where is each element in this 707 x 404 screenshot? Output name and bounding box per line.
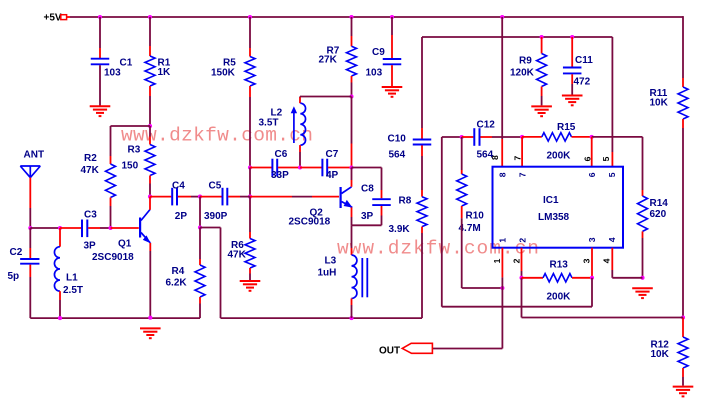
pin 1 number inside (498, 238, 508, 243)
svg-text:5: 5 (607, 172, 617, 177)
svg-text:R4: R4 (172, 266, 185, 277)
svg-text:2.5T: 2.5T (63, 285, 83, 296)
label R1 (158, 57, 171, 68)
label R2 (84, 153, 97, 164)
svg-text:ANT: ANT (24, 149, 45, 160)
label Q2 2SC9018 (289, 217, 331, 228)
label OUT (379, 345, 400, 356)
wire R7 bottom lead (351, 76, 353, 97)
wire C3 to R2 node (88, 227, 110, 229)
label C1 (120, 57, 133, 68)
label R10 (466, 211, 485, 222)
wire C10 to R8 (421, 145, 423, 196)
svg-text:OUT: OUT (379, 345, 400, 356)
node pin1 junction (500, 286, 504, 290)
wire R10 bottom lead (462, 206, 503, 288)
svg-text:1K: 1K (158, 67, 172, 78)
svg-text:R14: R14 (650, 198, 669, 209)
svg-text:C11: C11 (575, 55, 593, 66)
label C2 (10, 247, 23, 258)
value 47K (81, 165, 100, 176)
wire pin1 lead (501, 248, 503, 288)
wire L1 bottom lead (59, 291, 61, 318)
svg-text:C1: C1 (120, 57, 133, 68)
capacitor C11 (563, 68, 582, 74)
resistor R10 (457, 174, 467, 206)
inductor L2 (300, 103, 305, 145)
svg-text:5: 5 (601, 156, 611, 161)
wire C1 top lead (99, 17, 101, 58)
svg-text:R9: R9 (519, 56, 532, 67)
wire C12 left lead (462, 136, 474, 138)
pin 4 number outside (602, 258, 612, 263)
resistor R6 (245, 239, 255, 269)
wire pin1 to OUT (432, 288, 502, 349)
node R4 top junction (198, 225, 202, 229)
pin 1 number outside (492, 258, 502, 263)
wire R1-R2 link (111, 126, 151, 164)
node C6 left junction (248, 165, 252, 169)
value 103 (104, 67, 121, 78)
wire R3 top lead (149, 126, 151, 145)
value 103 (366, 68, 383, 79)
wire R4 top lead (199, 228, 201, 266)
capacitor C6 (272, 159, 277, 177)
wire R4 bottom lead (199, 297, 201, 318)
wire Q2 emitter to L3 (351, 225, 353, 255)
capacitor C4 (172, 188, 177, 206)
svg-text:C2: C2 (10, 247, 23, 258)
wire R12 bottom lead (682, 368, 684, 386)
svg-text:3.5T: 3.5T (259, 118, 279, 129)
wire C12 right lead (480, 136, 522, 138)
svg-text:C5: C5 (209, 180, 222, 191)
wire pin8 supply drop (501, 17, 503, 167)
svg-text:564: 564 (389, 150, 406, 161)
pin 3 number outside (582, 258, 592, 263)
wire C8 top link (352, 168, 382, 199)
node R6 top junction (248, 195, 252, 199)
wire R10 top lead (461, 137, 463, 174)
svg-text:6: 6 (587, 172, 597, 177)
value 27K (319, 55, 338, 66)
svg-text:6: 6 (583, 156, 593, 161)
wire pin2 to R11R12 node (522, 278, 684, 318)
svg-text:150: 150 (122, 161, 139, 172)
label C9 (372, 47, 385, 58)
node L1 top junction (58, 226, 62, 230)
label R5 (223, 57, 236, 68)
pin 7 number inside (518, 172, 528, 177)
pin 5 number inside (607, 172, 617, 177)
label L3 (325, 256, 337, 267)
wire pin3 to C12 node (442, 137, 592, 307)
pin 3 number inside (587, 237, 597, 242)
wire R14 bottom lead (642, 231, 644, 277)
wire rail2 (221, 317, 423, 319)
svg-text:103: 103 (366, 68, 383, 79)
svg-text:620: 620 (650, 209, 667, 220)
wire C9 bottom lead (391, 65, 393, 86)
wire R11 top lead (682, 16, 684, 87)
value 120K (510, 68, 535, 79)
capacitor C10 (413, 140, 432, 145)
value 10K (651, 349, 670, 360)
svg-text:R10: R10 (466, 211, 485, 222)
transistor Q2 (340, 187, 353, 208)
svg-text:27K: 27K (319, 55, 338, 66)
wire Q2 emitter lead (351, 207, 353, 225)
value 564 (389, 150, 406, 161)
node C4 C5 junction (198, 195, 202, 199)
label C5 (209, 180, 222, 191)
value 3P (84, 240, 97, 251)
wire L2 top link (300, 97, 352, 104)
wire R7 top lead (351, 17, 353, 46)
watermark www.dzkfw.com.cn lower (337, 238, 539, 260)
wire R7 to C7 link (351, 97, 353, 168)
label Q2 (310, 208, 324, 219)
svg-text:2SC9018: 2SC9018 (289, 217, 331, 228)
capacitor C3 (82, 220, 87, 238)
capacitor C8 (372, 199, 391, 205)
capacitor C2 (20, 259, 39, 264)
label C7 (326, 149, 339, 160)
svg-text:472: 472 (574, 77, 591, 88)
wire R1 bottom lead (149, 86, 151, 126)
label R4 (172, 266, 185, 277)
value 2.5T (63, 285, 83, 296)
value 3P (361, 211, 374, 222)
svg-text:390P: 390P (204, 211, 228, 222)
L2 tuning arrow (291, 106, 297, 143)
op-amp U1 IC1 box (493, 167, 624, 248)
pin 7 number outside (513, 155, 523, 160)
wire +5V rail (70, 16, 683, 18)
value 620 (650, 209, 667, 220)
node rail R5 (248, 15, 252, 19)
resistor R13 (543, 274, 572, 282)
svg-text:8: 8 (490, 155, 500, 160)
node rail R1 (148, 15, 152, 19)
resistor R13 left lead (522, 277, 544, 279)
capacitor C1 (91, 59, 110, 65)
svg-text:R3: R3 (128, 145, 141, 156)
value 150 (122, 161, 139, 172)
wire R8 bottom lead (421, 227, 423, 319)
wire Q1 collector lead (149, 197, 151, 210)
label R14 (650, 198, 669, 209)
wire y37 divider (422, 36, 612, 38)
value 1K (158, 67, 172, 78)
label R11 (650, 88, 668, 99)
inductor L3 (352, 255, 368, 298)
node L2 bottom junction (298, 165, 302, 169)
wire C1 bottom lead (99, 65, 101, 105)
wire C5 right lead (228, 196, 250, 198)
svg-text:10K: 10K (650, 98, 669, 109)
resistor R13 right lead (572, 277, 592, 279)
node pin2 junction (519, 276, 523, 280)
svg-text:3: 3 (582, 258, 592, 263)
node pin3 junction (590, 276, 594, 280)
wire ground rail left (30, 317, 200, 319)
svg-text:150K: 150K (211, 67, 236, 78)
svg-text:8: 8 (498, 172, 508, 177)
svg-text:6.2K: 6.2K (166, 277, 188, 288)
capacitor C12 (474, 128, 479, 146)
node C7 Q2 junction (349, 165, 353, 169)
pin 2 number outside (512, 258, 522, 263)
wire R15 right lead (572, 136, 592, 138)
svg-text:33P: 33P (271, 170, 289, 181)
wire pin2 lead (521, 248, 523, 278)
svg-text:LM358: LM358 (538, 212, 570, 223)
wire pin7 lead (521, 137, 523, 167)
capacitor C5 (223, 188, 228, 206)
svg-text:47K: 47K (81, 165, 100, 176)
label C12 (477, 120, 496, 131)
svg-text:2: 2 (512, 258, 522, 263)
resistor R4 (195, 265, 205, 297)
pin 6 number outside (583, 156, 593, 161)
transistor Q1 (139, 210, 151, 244)
value 6.2K (166, 277, 188, 288)
svg-text:C7: C7 (326, 149, 339, 160)
svg-text:L3: L3 (325, 256, 337, 267)
svg-text:R15: R15 (557, 122, 576, 133)
node Q1 emitter rail junction (148, 316, 152, 320)
label ANT (24, 149, 45, 160)
svg-text:C3: C3 (84, 209, 97, 220)
label C10 (388, 133, 407, 144)
wire R12 top lead (682, 318, 684, 338)
value 200K (547, 292, 572, 303)
ground C1 (90, 106, 111, 116)
label C3 (84, 209, 97, 220)
svg-text:C4: C4 (172, 180, 185, 191)
svg-text:C12: C12 (477, 120, 496, 131)
resistor R5 (245, 57, 255, 87)
svg-text:3.9K: 3.9K (389, 224, 411, 235)
wire C10 top lead (421, 37, 423, 139)
svg-text:200K: 200K (547, 292, 572, 303)
wire C2 bottom lead (29, 265, 31, 319)
wire C12 left corner (442, 136, 462, 138)
wire R5 top lead (249, 17, 251, 57)
ground R9 (531, 106, 552, 116)
wire R5-R6 link (249, 168, 251, 197)
node R7 L2 junction (349, 94, 353, 98)
node C11 top junction (570, 35, 574, 39)
svg-text:2P: 2P (175, 211, 188, 222)
svg-text:R2: R2 (84, 153, 97, 164)
label R7 (327, 46, 340, 57)
node Q1 collector junction (148, 195, 152, 199)
wire L3 bottom lead (351, 298, 353, 318)
wire C7 right lead (328, 167, 351, 169)
ground C9 (382, 87, 403, 97)
capacitor C9 (383, 59, 402, 64)
resistor R3 (145, 145, 155, 176)
label R8 (399, 195, 412, 206)
pin 2 number inside (517, 238, 527, 243)
label C6 (275, 149, 288, 160)
resistor R15 (542, 133, 572, 141)
wire C5 to Q2 base (250, 196, 339, 198)
resistor R12 (678, 337, 688, 368)
node L3 rail junction (349, 316, 353, 320)
value 200K (547, 151, 572, 162)
svg-text:R8: R8 (399, 195, 412, 206)
wire C11 top lead (571, 37, 573, 67)
wire C4-C5 link (178, 196, 200, 198)
node R9 top junction (540, 35, 544, 39)
wire R15 left lead (522, 136, 542, 138)
value 1uH (318, 268, 337, 279)
wire R9 top lead (541, 37, 543, 54)
label L2 (271, 108, 283, 119)
label R13 (550, 260, 569, 271)
svg-text:3: 3 (587, 237, 597, 242)
value 150K (211, 67, 236, 78)
wire C5 left lead (200, 196, 222, 198)
svg-text:47K: 47K (228, 250, 247, 261)
label Q1 2SC9018 (92, 252, 134, 263)
label C4 (172, 180, 185, 191)
wire C7 left lead (300, 167, 322, 169)
wire Q1 emitter lead (149, 243, 151, 318)
label L1 (66, 272, 78, 283)
value 4P (326, 170, 339, 181)
wire R3 bottom lead (149, 176, 151, 197)
wire pin4 lead (612, 248, 642, 278)
wire C4C5 node down (199, 197, 201, 228)
wire C6 left lead (250, 167, 272, 169)
label R6 (231, 240, 244, 251)
svg-text:2: 2 (517, 238, 527, 243)
node L1 rail junction (58, 316, 62, 320)
ground C11 (562, 96, 583, 106)
wire R1 top lead (149, 17, 151, 56)
wire R6 bottom lead (249, 268, 251, 280)
wire R11 bottom lead (682, 119, 684, 318)
wire R5 bottom lead (249, 86, 251, 168)
wire R14 top lead (642, 137, 644, 196)
label LM358 (538, 212, 570, 223)
svg-text:Q1: Q1 (118, 238, 132, 249)
value 390P (204, 211, 228, 222)
value 47K (228, 250, 247, 261)
svg-text:+5V: +5V (44, 12, 62, 23)
svg-text:1: 1 (498, 238, 508, 243)
resistor R8 (417, 197, 427, 227)
pin 5 number outside (601, 156, 611, 161)
wire pin3 lead (591, 248, 593, 278)
node R15 right junction (590, 135, 594, 139)
resistor R14 (638, 196, 648, 231)
resistor R1 (145, 56, 155, 86)
node C12 R10 junction (460, 135, 464, 139)
pin 8 number inside (498, 172, 508, 177)
OUT port arrow (402, 343, 432, 353)
node R15 left junction (520, 135, 524, 139)
svg-text:4P: 4P (326, 170, 339, 181)
wire pin5 drop (611, 37, 613, 167)
value 3.5T (259, 118, 279, 129)
svg-text:103: 103 (104, 67, 121, 78)
wire Q2 collector lead (351, 168, 353, 187)
wire ANT lead (29, 178, 31, 228)
svg-text:C6: C6 (275, 149, 288, 160)
svg-text:C9: C9 (372, 47, 385, 58)
svg-text:4: 4 (607, 237, 617, 242)
wire C6 right lead (278, 167, 300, 169)
+5V label (44, 12, 62, 23)
label C11 (575, 55, 593, 66)
value 3.9K (389, 224, 411, 235)
svg-text:R13: R13 (550, 260, 569, 271)
inductor L1 (54, 247, 60, 291)
label R3 (128, 145, 141, 156)
resistor R9 (537, 54, 547, 87)
value 10K (650, 98, 669, 109)
label R12 (651, 340, 670, 351)
resistor R2 (106, 164, 116, 198)
svg-text:C8: C8 (361, 183, 374, 194)
node R1 R3 junction (148, 124, 152, 128)
svg-text:4: 4 (602, 258, 612, 263)
pin 8 number outside (490, 155, 500, 160)
svg-text:1uH: 1uH (318, 268, 337, 279)
label C8 (361, 183, 374, 194)
value 4.7M (459, 223, 481, 234)
svg-text:7: 7 (513, 155, 523, 160)
node R2 bottom junction (108, 226, 112, 230)
svg-text:L1: L1 (66, 272, 78, 283)
value 5p (8, 271, 20, 282)
wire ANT to L1 (30, 227, 60, 229)
svg-text:1: 1 (492, 258, 502, 263)
svg-text:3P: 3P (84, 240, 97, 251)
wire C2 top lead (29, 228, 31, 258)
wire R9 bottom lead (541, 87, 543, 106)
ground R12 (673, 387, 694, 397)
ground R6 (240, 281, 261, 291)
resistor R11 (678, 87, 688, 119)
svg-text:200K: 200K (547, 151, 572, 162)
value 472 (574, 77, 591, 88)
svg-text:IC1: IC1 (543, 195, 559, 206)
value 2P (175, 211, 188, 222)
svg-text:5p: 5p (8, 271, 20, 282)
svg-text:120K: 120K (510, 68, 535, 79)
node rail C1 (98, 15, 102, 19)
svg-text:2SC9018: 2SC9018 (92, 252, 134, 263)
wire C9 top lead (391, 17, 393, 58)
antenna ANT (20, 166, 40, 178)
node pin4 ground junction (640, 276, 644, 280)
svg-text:10K: 10K (651, 349, 670, 360)
ground rail1 (140, 328, 161, 338)
wire R2 bottom lead (110, 198, 112, 229)
node rail pin8 (500, 15, 504, 19)
value 33P (271, 170, 289, 181)
capacitor C7 (322, 159, 327, 177)
node rail R7 (349, 15, 353, 19)
label R9 (519, 56, 532, 67)
svg-text:3P: 3P (361, 211, 374, 222)
